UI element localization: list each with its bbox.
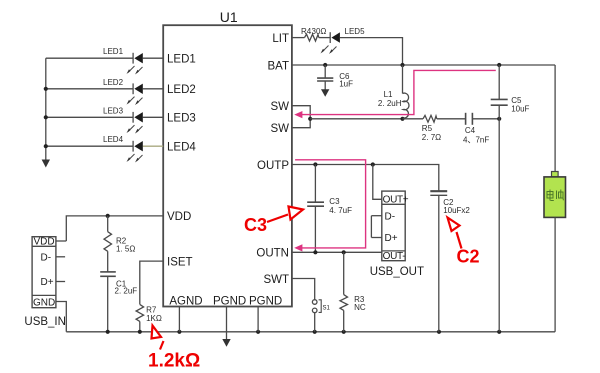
node junction BAT/C5 <box>497 63 501 67</box>
pin D- stub USB_OUT <box>371 215 381 217</box>
wire S1 to bus <box>314 313 316 332</box>
capacitor C5 <box>498 65 500 99</box>
svg-text:U1: U1 <box>220 9 238 25</box>
node junction R7/bus <box>138 330 142 334</box>
switch S1 <box>312 300 317 305</box>
svg-text:LED4: LED4 <box>167 142 196 154</box>
wire battery riser <box>554 65 556 172</box>
node junction LED2 <box>44 87 48 91</box>
svg-text:USB_OUT: USB_OUT <box>370 266 424 278</box>
svg-text:AGND: AGND <box>169 295 202 307</box>
wire to R5 <box>403 118 424 120</box>
svg-text:OUT+: OUT+ <box>383 194 409 205</box>
LED D5 symbol <box>329 32 331 43</box>
svg-text:C3: C3 <box>244 215 267 235</box>
pin PGND1 line <box>226 307 228 332</box>
battery terminal <box>552 172 559 177</box>
wire SW to L1 bottom <box>310 118 402 120</box>
svg-text:S1: S1 <box>323 306 331 312</box>
ground arrow below C6 <box>321 89 329 97</box>
wire OUT+ drop <box>373 165 382 200</box>
resistor R3 <box>343 252 345 294</box>
svg-text:LED2: LED2 <box>167 84 196 96</box>
node junction LED4 <box>44 144 48 148</box>
svg-text:D+: D+ <box>41 277 54 288</box>
LED D1 symbol <box>132 53 134 64</box>
wire battery to bus <box>554 217 556 331</box>
capacitor C2 <box>430 190 447 192</box>
node junction BAT/L1 <box>400 63 404 67</box>
wire pink highlight OUTP/OUTN loop <box>295 160 366 248</box>
wire GND of USB_IN down to bus <box>56 302 66 332</box>
wire LED4 olive segment <box>143 145 163 147</box>
node junction C5 bottom <box>497 117 501 121</box>
LED D4 symbol <box>132 141 134 152</box>
pin D+ stub USB_OUT <box>371 237 381 239</box>
node junction PGND2/bus <box>256 330 260 334</box>
svg-text:R5: R5 <box>422 124 433 133</box>
svg-text:LED3: LED3 <box>103 106 124 115</box>
wire ground bus <box>66 331 555 333</box>
wire C4 to C5 node <box>472 118 499 120</box>
node junction LED3 <box>44 115 48 119</box>
op-amp U1 main IC box <box>163 25 292 306</box>
svg-text:LED3: LED3 <box>167 113 196 125</box>
svg-text:C2: C2 <box>457 247 480 267</box>
node junction L1/R5 <box>400 117 404 121</box>
svg-text:2. 7Ω: 2. 7Ω <box>422 133 441 142</box>
wire D- D+ short bracket <box>370 216 372 238</box>
svg-text:C5: C5 <box>511 96 522 105</box>
node junction VDD/R2 <box>106 214 110 218</box>
svg-text:BAT: BAT <box>267 60 289 72</box>
svg-text:1. 5Ω: 1. 5Ω <box>116 245 135 254</box>
svg-text:1.2kΩ: 1.2kΩ <box>148 351 200 372</box>
svg-text:SW: SW <box>270 123 289 135</box>
svg-text:USB_IN: USB_IN <box>24 316 66 328</box>
svg-text:OUT-: OUT- <box>383 251 406 262</box>
node junction AGND/bus <box>177 330 181 334</box>
wire VDD stub to USB_IN <box>56 240 66 242</box>
pin PGND2 line <box>257 307 259 332</box>
node junction C2/bus <box>437 330 441 334</box>
battery body <box>544 177 566 218</box>
svg-text:OUTP: OUTP <box>257 160 289 172</box>
svg-text:10uF: 10uF <box>511 105 529 114</box>
svg-text:LED1: LED1 <box>167 54 196 66</box>
wire R4 to LED5 <box>319 37 330 39</box>
inductor L1 <box>402 65 404 94</box>
node junction R3/bus <box>342 330 346 334</box>
LED D2 symbol <box>132 83 134 94</box>
node junction OUTN/R3 <box>342 250 346 254</box>
svg-text:SWT: SWT <box>263 274 289 286</box>
wire OUTN <box>292 251 382 253</box>
svg-text:LED5: LED5 <box>345 27 366 36</box>
node junction S1/bus <box>313 330 317 334</box>
connector USB_OUT box <box>382 191 405 261</box>
svg-text:C3: C3 <box>329 197 340 206</box>
svg-text:L1: L1 <box>384 90 393 99</box>
pin SW loop <box>292 106 310 128</box>
capacitor C1 <box>100 271 116 273</box>
svg-text:C4: C4 <box>465 126 476 135</box>
wire LED bus vertical left <box>45 58 47 160</box>
wire C5 down to bus <box>498 105 500 332</box>
svg-text:1uF: 1uF <box>339 80 353 89</box>
svg-text:LED4: LED4 <box>103 135 124 144</box>
connector USB_IN box <box>32 237 56 308</box>
wire C2 to bus <box>438 195 440 331</box>
wire ISET to R7 <box>140 261 163 304</box>
svg-text:2. 2uF: 2. 2uF <box>115 287 138 296</box>
svg-text:D+: D+ <box>385 233 398 244</box>
node junction SW <box>308 117 312 121</box>
LED D3 symbol <box>132 112 134 123</box>
resistor R4 <box>305 34 319 41</box>
svg-text:2. 2uH: 2. 2uH <box>378 99 402 108</box>
wire LED1 row <box>46 57 133 59</box>
svg-text:VDD: VDD <box>167 211 191 223</box>
node junction OUTP/OUT+ <box>371 162 375 166</box>
capacitor C3 <box>314 165 316 203</box>
pin D- stub USB_IN <box>56 256 65 258</box>
node junction C5/bus <box>497 330 501 334</box>
svg-text:PGND: PGND <box>213 295 246 307</box>
wire SWT to S1 <box>292 279 315 300</box>
wire LED4 row <box>46 145 133 147</box>
pin D+ stub USB_IN <box>56 281 65 283</box>
svg-text:VDD: VDD <box>34 237 55 248</box>
svg-text:ISET: ISET <box>167 256 193 268</box>
ground arrow below LED bus <box>42 160 50 168</box>
capacitor C6 <box>324 65 326 78</box>
wire LED5 to corner down to BAT <box>340 38 403 65</box>
node junction C1/bus <box>106 330 110 334</box>
wire R5 to C4 <box>437 118 466 120</box>
battery glyph 电 <box>547 190 554 201</box>
wire pink highlight SW loop <box>298 70 496 114</box>
ground arrow below PGND1 <box>226 332 228 340</box>
svg-text:PGND: PGND <box>249 295 282 307</box>
wire OUTP <box>292 165 439 192</box>
node junction OUTP/C3 <box>313 162 317 166</box>
wire LIT to R4 <box>292 37 305 39</box>
pin AGND line <box>178 307 180 332</box>
resistor R2 <box>107 216 109 232</box>
node junction BAT/C6 <box>323 63 327 67</box>
svg-text:NC: NC <box>354 303 366 312</box>
wire BAT rail <box>292 64 555 66</box>
svg-text:30Ω: 30Ω <box>312 27 327 36</box>
svg-text:10uFx2: 10uFx2 <box>443 206 470 215</box>
svg-text:1KΩ: 1KΩ <box>146 314 162 323</box>
resistor R7 <box>136 304 144 321</box>
svg-text:D-: D- <box>385 211 396 222</box>
svg-text:D-: D- <box>41 253 52 264</box>
svg-text:LIT: LIT <box>272 33 289 45</box>
node junction OUTN/C3 <box>313 250 317 254</box>
svg-text:OUTN: OUTN <box>256 248 289 260</box>
svg-text:GND: GND <box>33 297 55 308</box>
wire LED2 row <box>46 88 133 90</box>
svg-text:SW: SW <box>270 101 289 113</box>
capacitor C4 <box>465 113 467 125</box>
svg-text:4. 7uF: 4. 7uF <box>329 206 352 215</box>
svg-text:LED1: LED1 <box>103 47 124 56</box>
resistor R5 <box>423 115 437 122</box>
svg-text:4、7nF: 4、7nF <box>463 136 489 145</box>
wire LED3 row <box>46 116 133 118</box>
svg-text:R4: R4 <box>301 27 312 36</box>
battery glyph 池 <box>557 190 564 201</box>
wire VDD rail <box>66 216 163 241</box>
svg-text:LED2: LED2 <box>103 78 124 87</box>
